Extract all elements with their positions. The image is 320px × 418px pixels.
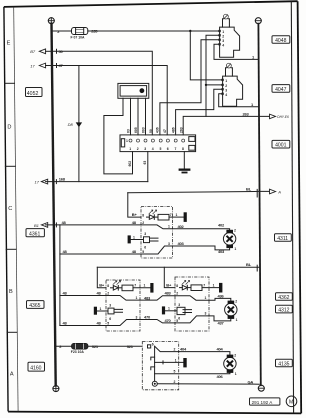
svg-text:263: 263 <box>179 127 183 133</box>
wire 437 box3 to lamp 4312 pin1 <box>209 316 231 321</box>
internal common rail 4135 <box>154 346 156 381</box>
svg-text:4047: 4047 <box>275 87 286 93</box>
component code box 4052 <box>26 88 43 97</box>
ground bar left of box3 with stem to pin1 <box>162 306 165 314</box>
svg-text:1: 1 <box>236 318 238 322</box>
box3 pin7 wire to ground bar <box>202 287 219 289</box>
svg-text:3: 3 <box>178 303 180 307</box>
wire 4047 pin4 to ground bus, label 1 <box>219 94 259 107</box>
svg-text:2: 2 <box>234 229 236 233</box>
svg-text:50: 50 <box>149 129 153 133</box>
svg-text:4365: 4365 <box>29 303 40 309</box>
switch wire pin1 detour to connector pin1 bottom (wire 602) <box>104 98 133 174</box>
svg-text:404: 404 <box>217 347 224 352</box>
pin 6 terminal square on entry wire <box>148 345 151 348</box>
lamp 4312 (side repeater) <box>225 299 238 322</box>
wire 4048 pin4 to ground bus, label 1 <box>214 44 259 59</box>
svg-text:4135: 4135 <box>278 361 289 367</box>
svg-text:47: 47 <box>163 129 167 133</box>
svg-text:4311: 4311 <box>277 236 288 242</box>
switch wire to connector pin1 top <box>130 98 132 135</box>
svg-text:B1: B1 <box>34 223 39 228</box>
component code box 4048 <box>272 36 290 44</box>
svg-text:1: 1 <box>213 283 215 287</box>
svg-text:235: 235 <box>91 29 98 34</box>
wire 4047 pin3 stair to connector pin7 <box>176 89 223 135</box>
svg-text:1: 1 <box>251 102 254 107</box>
svg-text:2: 2 <box>235 299 237 303</box>
wire 48 bus vertical <box>59 225 61 326</box>
resistor box2 <box>122 285 133 291</box>
svg-text:7: 7 <box>170 213 172 217</box>
feed drop to relay box 1 pin8 <box>128 193 141 217</box>
bulb common terminal circle in 4135 <box>152 381 157 386</box>
destination arrow 17 (left) on wire 47 <box>30 63 52 68</box>
svg-text:603: 603 <box>142 127 146 133</box>
connector pin numbers 1-8 <box>126 139 184 151</box>
svg-text:48: 48 <box>63 291 68 296</box>
lamp unit 4047 (bulb holder) <box>222 63 243 106</box>
svg-text:7: 7 <box>203 283 205 287</box>
relay box 1 (flasher unit, dashed) <box>141 207 173 259</box>
lamp unit 4048 (bulb holder) <box>219 14 240 57</box>
svg-text:3: 3 <box>136 315 138 319</box>
internal connector rect box3 with stubs <box>177 307 185 314</box>
svg-text:M: M <box>289 400 293 406</box>
svg-text:63: 63 <box>127 129 131 133</box>
svg-text:2: 2 <box>176 292 178 296</box>
svg-text:3: 3 <box>109 303 111 307</box>
svg-text:48: 48 <box>132 220 137 225</box>
wire 403 box1 to lamp 4311 pin1 <box>173 246 230 250</box>
LED arrows box3 <box>182 281 190 285</box>
svg-text:2: 2 <box>174 347 176 351</box>
feed line BL row1 from ground bus to relay box 1 pin8, arrow A <box>128 187 281 198</box>
svg-text:B+: B+ <box>166 282 172 287</box>
diode box1 <box>147 215 158 220</box>
battery feed terminal bottom (plus point) <box>53 386 59 392</box>
svg-text:483: 483 <box>144 295 151 300</box>
ground symbol under connector pin8 <box>183 152 185 169</box>
svg-text:BL: BL <box>246 187 252 192</box>
svg-text:2: 2 <box>142 221 144 225</box>
LED arrows box1 <box>149 210 157 214</box>
ground bar left of box2 with stem to pin1 <box>94 307 97 315</box>
svg-text:5: 5 <box>160 147 162 151</box>
destination arrow 17 (left) on wire 168 <box>35 179 48 184</box>
svg-text:403: 403 <box>218 249 225 254</box>
internal connector rect box2 with stubs <box>108 308 114 314</box>
wire feed to 4047 pin1 (branch of 235) <box>189 30 191 32</box>
svg-text:4: 4 <box>225 93 227 97</box>
svg-text:4312: 4312 <box>278 308 289 314</box>
svg-text:321: 321 <box>92 344 99 349</box>
component code box 4135 <box>276 359 293 367</box>
svg-text:BL: BL <box>246 262 252 267</box>
supply bus vertical (left, thick) <box>52 24 56 386</box>
hazard switch 4052 <box>118 83 149 98</box>
svg-text:168: 168 <box>59 177 66 182</box>
svg-text:1: 1 <box>168 225 170 229</box>
ground bar right of box2 <box>150 283 153 293</box>
diode box3 <box>180 285 191 290</box>
svg-text:48: 48 <box>63 249 68 254</box>
svg-text:63: 63 <box>143 161 147 165</box>
feed drop to relay box 2 pin8 <box>97 267 106 288</box>
lamp 4135 (rear turn signal) <box>224 353 237 376</box>
wire 4048 pin3 stair to connector pin5 <box>160 40 220 135</box>
box2 pin7 wire to ground bar <box>133 287 150 289</box>
svg-text:DHY-E6: DHY-E6 <box>277 115 289 119</box>
svg-text:470: 470 <box>165 318 172 323</box>
box2 pin5 internal to pin3 exit <box>106 320 140 326</box>
svg-text:5: 5 <box>174 370 176 374</box>
svg-text:5: 5 <box>176 319 178 323</box>
svg-text:291 192 A: 291 192 A <box>252 400 274 405</box>
ground terminal bottom right (minus point) <box>258 385 264 391</box>
box1 pin5 internal to pin3 exit <box>141 246 173 254</box>
svg-text:7: 7 <box>175 147 177 151</box>
svg-text:4052: 4052 <box>27 91 39 97</box>
svg-text:2: 2 <box>107 291 109 295</box>
svg-text:D: D <box>7 125 11 131</box>
svg-text:2: 2 <box>137 147 139 151</box>
component code box 4362 <box>276 293 293 301</box>
svg-text:404: 404 <box>180 347 187 352</box>
lamp unit 4048 pin numbers <box>222 30 224 47</box>
branch to ground bar of 4135 <box>155 361 184 363</box>
svg-text:7: 7 <box>134 284 136 288</box>
diagram number box 291 192 A <box>250 398 280 405</box>
switch wire to connector pin3 top <box>145 98 147 135</box>
component code box 4311 <box>275 234 292 242</box>
svg-text:6: 6 <box>167 147 169 151</box>
box1 pin2 internal to pin1 exit <box>141 225 173 229</box>
svg-text:437: 437 <box>218 320 225 325</box>
svg-text:2: 2 <box>234 353 236 357</box>
diode box2 <box>111 286 122 291</box>
svg-text:1: 1 <box>168 307 170 311</box>
svg-text:5: 5 <box>142 250 144 254</box>
box1 pin7 wire to ground bar <box>169 216 184 218</box>
svg-text:A: A <box>277 189 281 194</box>
svg-text:E: E <box>7 41 11 47</box>
wire 470 box2 to box3 pin5 <box>140 320 175 323</box>
wire 48 branch to relay box 1 pin5 <box>60 253 141 255</box>
svg-text:2: 2 <box>225 84 227 88</box>
wire 47 from bus to connector pin6 <box>52 66 167 135</box>
battery feed terminal top (plus point) <box>48 18 54 24</box>
wire 2 from bus to fuse F23 <box>55 345 71 347</box>
branch to pin2 wire 404 to lamp 4135 pin2 <box>155 346 179 351</box>
svg-text:8: 8 <box>182 147 184 151</box>
svg-text:436: 436 <box>218 294 225 299</box>
branch to pin5 wire 406 to lamp 4135 pin1 <box>155 372 230 375</box>
svg-text:3: 3 <box>144 232 146 236</box>
connector terminals top row <box>129 139 185 142</box>
svg-text:4361: 4361 <box>29 231 40 237</box>
svg-text:4048: 4048 <box>275 38 286 44</box>
svg-text:B: B <box>9 289 13 295</box>
ground terminal top right (minus point) <box>255 18 261 24</box>
wire 48 network from arrow B1 <box>34 220 141 228</box>
feed drop to relay box 3 pin8 <box>164 267 175 287</box>
svg-text:406: 406 <box>217 374 224 379</box>
svg-text:1: 1 <box>175 358 177 362</box>
svg-text:1: 1 <box>144 284 146 288</box>
component code box 4361 <box>26 229 44 238</box>
svg-text:1: 1 <box>234 247 236 251</box>
svg-text:D8: D8 <box>68 122 74 127</box>
svg-text:C: C <box>8 206 12 212</box>
svg-text:402: 402 <box>178 224 185 229</box>
svg-text:48: 48 <box>63 321 68 326</box>
svg-text:486: 486 <box>172 127 176 133</box>
svg-text:2: 2 <box>222 34 224 38</box>
zone tick marks <box>5 83 17 332</box>
svg-text:321: 321 <box>127 344 134 349</box>
svg-text:3: 3 <box>144 147 146 151</box>
resistor box1 <box>158 214 169 220</box>
svg-text:6: 6 <box>109 317 111 321</box>
wire GA from 4135 common to ground bus <box>157 383 259 385</box>
svg-text:8: 8 <box>176 284 178 288</box>
lamp 4311 (turn signal indicator) <box>223 229 236 252</box>
internal connector rect box1 with stubs pins 3 and 6 <box>144 237 150 243</box>
inline destination arrow D8 on branch wire <box>76 122 82 127</box>
wire 4048 pin2 down to wire 263 (with branch to 4047 pin2) <box>206 35 220 116</box>
feed line BL row2 from ground bus <box>97 262 259 271</box>
svg-text:17: 17 <box>35 180 40 185</box>
switch wire to connector pin2 top <box>137 98 139 135</box>
relay box 3 (right flasher unit row2, dashed) <box>175 277 209 331</box>
resistor box3 <box>191 285 202 291</box>
filament stub hooks inside 4135 <box>151 357 155 360</box>
component code box 4312 <box>276 305 293 313</box>
wire 2 from bus to fuse F07 <box>52 30 72 32</box>
LED arrows box2 <box>113 281 121 285</box>
svg-text:48: 48 <box>97 321 102 326</box>
destination arrow B7 (left) on wire 50 <box>30 49 52 54</box>
svg-text:4: 4 <box>152 147 154 151</box>
svg-text:1: 1 <box>129 147 131 151</box>
svg-text:8: 8 <box>107 284 109 288</box>
wire junction 47 branch down <box>78 66 80 182</box>
svg-text:B+: B+ <box>99 283 105 288</box>
svg-text:1: 1 <box>133 235 135 239</box>
svg-text:48: 48 <box>62 220 67 225</box>
box3 pin2 internal to pin1 exit <box>175 296 209 301</box>
box3 pin5 internal to pin3 exit <box>175 316 209 323</box>
wire 50 from bus to connector pin4 <box>52 51 152 135</box>
svg-text:436: 436 <box>156 127 160 133</box>
svg-text:403: 403 <box>178 241 185 246</box>
component code box 4047 <box>272 85 290 93</box>
svg-text:1: 1 <box>136 296 138 300</box>
svg-text:8: 8 <box>142 214 144 218</box>
wire 263 to connector pin8 and arrow DHY-E6 <box>183 116 269 134</box>
svg-text:483: 483 <box>165 291 172 296</box>
svg-text:605: 605 <box>134 127 138 133</box>
connector 4001 (central connector strip) <box>120 135 196 152</box>
svg-text:GA: GA <box>248 379 254 384</box>
wire 48 branch to relay box 2 pin5 <box>60 325 106 327</box>
svg-text:4: 4 <box>222 43 224 47</box>
svg-text:3: 3 <box>168 242 170 246</box>
svg-text:602: 602 <box>128 161 132 167</box>
lamp unit 4047 pin numbers <box>225 79 227 97</box>
svg-text:B+: B+ <box>132 212 138 217</box>
svg-text:5: 5 <box>107 321 109 325</box>
wire 48 branch to relay box 2 pin2 <box>60 295 106 297</box>
svg-text:B7: B7 <box>30 49 36 54</box>
svg-text:3: 3 <box>225 88 227 92</box>
svg-text:F23 10A: F23 10A <box>71 350 85 354</box>
wire 168 line to destination arrow 17 <box>46 181 148 183</box>
svg-text:6: 6 <box>144 245 146 249</box>
wire 63 from connector pin3 bottom down to wire 168 line <box>147 152 149 182</box>
wire 483 box2 to box3 pin2 <box>140 296 175 300</box>
svg-text:48: 48 <box>132 249 137 254</box>
component code box 4365 <box>27 301 45 309</box>
ground bar right of box1 <box>184 212 187 222</box>
wire 235 fuse to lamp unit 4048 pin1 <box>88 30 220 32</box>
fuse F23 10A (dark body) <box>72 343 89 349</box>
svg-text:263: 263 <box>243 111 250 116</box>
wire 321 fuse F23 to rear lamp unit 4135 <box>88 345 142 347</box>
fuse F07 10A <box>72 28 88 35</box>
svg-text:1: 1 <box>225 79 227 83</box>
svg-text:4001: 4001 <box>275 143 286 149</box>
svg-text:3: 3 <box>222 39 224 43</box>
wire 436 box3 to lamp 4312 pin2 <box>209 298 231 300</box>
ground bus vertical (right) <box>258 24 260 386</box>
svg-text:6: 6 <box>178 317 180 321</box>
ground bar right of box3 <box>219 283 222 293</box>
component code box 4001 <box>272 140 290 148</box>
svg-text:2: 2 <box>174 380 176 384</box>
svg-text:48: 48 <box>97 291 102 296</box>
svg-text:1: 1 <box>176 213 178 217</box>
revision circle M <box>286 396 297 407</box>
svg-text:4362: 4362 <box>278 295 289 301</box>
ground bar left of box1 with stem to pin1 <box>128 235 131 243</box>
svg-text:4160: 4160 <box>30 366 41 372</box>
svg-text:470: 470 <box>144 315 151 320</box>
svg-text:3: 3 <box>205 312 207 316</box>
svg-text:F 07 10A: F 07 10A <box>71 36 85 40</box>
svg-text:1: 1 <box>205 296 207 300</box>
svg-text:A: A <box>10 372 14 378</box>
svg-text:1: 1 <box>100 307 102 311</box>
svg-text:6: 6 <box>152 342 154 346</box>
destination arrow DHY-E6 (right) <box>270 114 289 119</box>
component code box 4160 <box>28 362 45 371</box>
svg-text:1: 1 <box>235 372 237 376</box>
relay box 2 (left flasher unit row2, dashed) <box>106 280 140 331</box>
wire number labels above connector (rotated) <box>127 127 184 133</box>
wire 402 box1 to lamp 4311 pin2 <box>173 229 230 230</box>
box2 pin2 internal to pin1 exit <box>106 296 140 301</box>
svg-text:1: 1 <box>126 139 128 143</box>
rear lamp unit box 4135 (dashed) <box>142 342 178 390</box>
svg-text:17: 17 <box>30 63 35 68</box>
svg-text:402: 402 <box>218 222 225 227</box>
